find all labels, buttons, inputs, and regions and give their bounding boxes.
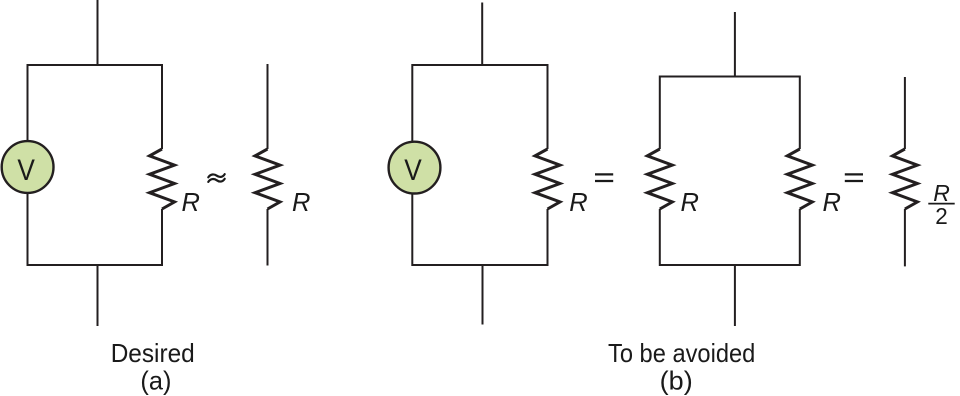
svg-text:(b): (b) [660, 366, 693, 396]
svg-text:R: R [182, 189, 200, 217]
svg-text:(a): (a) [140, 366, 171, 396]
svg-text:R: R [681, 189, 699, 217]
svg-text:R: R [569, 189, 587, 217]
svg-text:Desired: Desired [111, 338, 195, 368]
svg-text:V: V [17, 154, 35, 187]
svg-text:2: 2 [935, 203, 948, 229]
svg-text:R: R [823, 189, 841, 217]
svg-text:To be avoided: To be avoided [608, 338, 755, 368]
svg-text:V: V [404, 154, 422, 187]
svg-text:R: R [933, 180, 950, 206]
svg-text:R: R [292, 189, 310, 217]
